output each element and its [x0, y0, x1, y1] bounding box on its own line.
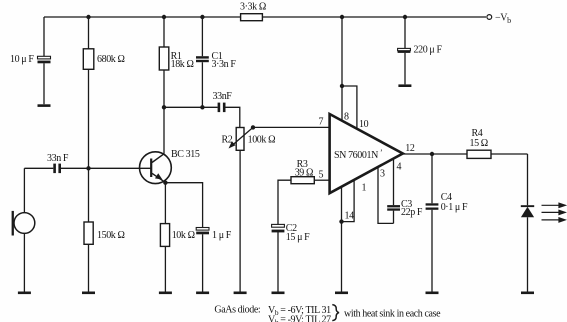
- svg-text:33nF: 33nF: [213, 91, 233, 102]
- ground (C2): [272, 292, 285, 295]
- resistor R2 100k body: [236, 128, 244, 151]
- svg-text:14: 14: [345, 211, 355, 222]
- wire mic/base node y=168: [24, 167, 150, 169]
- wire pin 4 through C3: [393, 158, 395, 223]
- transistor Q1 BC315: [140, 152, 172, 184]
- svg-text:39 Ω: 39 Ω: [295, 167, 313, 178]
- node dot rail/supply: [340, 15, 344, 19]
- svg-text:3: 3: [380, 169, 385, 180]
- resistor R4 15: [467, 150, 491, 158]
- capacitor 220uF plates: [398, 48, 411, 52]
- node dot base/680k: [86, 166, 90, 170]
- wire C4 branch: [431, 154, 433, 292]
- terminal -Vb circle: [487, 15, 492, 20]
- svg-text:SN 76001N ’: SN 76001N ’: [334, 148, 382, 161]
- svg-text:3·3k Ω: 3·3k Ω: [240, 2, 266, 13]
- wire pin 14 down: [341, 187, 343, 292]
- svg-text:22p F: 22p F: [401, 207, 423, 218]
- wire emitter to 10k: [164, 183, 166, 292]
- wire R1 branch: [163, 17, 165, 154]
- node dot collector/R1: [162, 105, 166, 109]
- node dot pins 8-10: [340, 84, 344, 88]
- svg-text:with heat sink in each case: with heat sink in each case: [344, 308, 441, 319]
- resistor R1 18k: [159, 47, 169, 70]
- svg-text:3·3n F: 3·3n F: [212, 59, 237, 70]
- capacitor 1uF plates: [196, 228, 209, 235]
- node dot collector/C1: [200, 105, 204, 109]
- ground (1uF): [196, 292, 209, 295]
- svg-text:7: 7: [319, 117, 324, 128]
- svg-text:33n F: 33n F: [47, 153, 69, 164]
- node dot pins 14-1: [339, 219, 343, 223]
- LED emission arrows: [542, 203, 566, 222]
- ground (150k): [82, 292, 95, 295]
- capacitor 10uF plates: [38, 56, 51, 63]
- wire pin 3 down: [378, 167, 394, 224]
- wire R2 lower to ground: [239, 150, 241, 291]
- ground (10k): [159, 292, 172, 295]
- wire supply to pins 8 and 10: [342, 17, 357, 130]
- resistor 10k: [160, 224, 169, 247]
- svg-text:12: 12: [405, 143, 415, 154]
- wire collector node y=107: [164, 107, 240, 127]
- svg-text:15 Ω: 15 Ω: [470, 138, 488, 149]
- wire R3 to C2: [278, 180, 291, 291]
- svg-text:Vb = -9V; TIL 27: Vb = -9V; TIL 27: [268, 315, 331, 322]
- LED GaAs diode: [521, 205, 534, 217]
- resistor R3 39: [291, 177, 314, 184]
- node dot output/C4: [430, 152, 434, 156]
- wire LED branch: [527, 154, 529, 292]
- wire emitter to 1uF: [165, 183, 202, 292]
- ground (mic): [18, 292, 31, 295]
- wire output pin 12: [403, 153, 528, 155]
- svg-text:10: 10: [359, 119, 369, 130]
- svg-text:1: 1: [362, 183, 367, 194]
- svg-text:100k Ω: 100k Ω: [248, 135, 276, 146]
- wire R2 wiper to pin 7: [253, 126, 330, 128]
- capacitor 33nF (mic) plates: [53, 164, 61, 174]
- svg-text:BC 315: BC 315: [171, 149, 200, 160]
- capacitor C4 0.1uF plates: [426, 203, 439, 210]
- wire mic vertical: [23, 168, 25, 291]
- svg-text:680k Ω: 680k Ω: [97, 54, 125, 65]
- svg-text:GaAs diode:: GaAs diode:: [214, 305, 260, 316]
- node dot rail/R1: [162, 15, 166, 19]
- capacitor C1 3.3nF plates: [196, 56, 209, 62]
- wire pin 5 to R3: [314, 179, 329, 181]
- microphone: [12, 211, 35, 236]
- svg-text:150k Ω: 150k Ω: [97, 230, 125, 241]
- svg-text:15 μ F: 15 μ F: [286, 232, 310, 243]
- resistor 680k: [83, 49, 94, 70]
- svg-text:R2: R2: [222, 135, 233, 146]
- wire C1 branch: [201, 17, 203, 107]
- ground (220uF): [398, 84, 411, 87]
- node dot rail/C1: [200, 15, 204, 19]
- svg-text:0·1 μ F: 0·1 μ F: [441, 202, 468, 213]
- svg-text:1 μ F: 1 μ F: [212, 230, 232, 241]
- potentiometer R2 wiper arrow: [229, 127, 254, 148]
- ground (LED): [521, 292, 534, 295]
- resistor 3.3k: [241, 14, 263, 21]
- svg-text:5: 5: [319, 170, 324, 181]
- svg-text:220 μ F: 220 μ F: [414, 45, 443, 56]
- node dot rail/680k: [86, 15, 90, 19]
- svg-text:−Vb: −Vb: [495, 13, 511, 26]
- svg-text:18k Ω: 18k Ω: [171, 59, 194, 70]
- wire 220uF branch: [404, 17, 406, 84]
- svg-text:4: 4: [397, 162, 402, 173]
- svg-text:10k Ω: 10k Ω: [172, 230, 195, 241]
- node dot emitter: [163, 181, 167, 185]
- svg-text:8: 8: [344, 112, 349, 123]
- ground (C4): [426, 292, 439, 295]
- capacitor C2 15uF plates: [272, 224, 285, 232]
- capacitor 33nF (top) plates: [218, 103, 226, 113]
- svg-text:10 μ F: 10 μ F: [10, 54, 34, 65]
- ground (10uF): [38, 104, 51, 107]
- node dot rail/220uF: [403, 15, 407, 19]
- wire 10uF branch: [43, 17, 45, 104]
- wire pin 1 down joining pin 14: [342, 180, 355, 222]
- resistor 150k: [84, 222, 93, 244]
- ground (pin 14): [335, 292, 348, 295]
- wire top supply rail: [44, 16, 486, 18]
- op-amp U1 SN76001N: [330, 114, 403, 193]
- ground (R2): [234, 292, 247, 295]
- wire 680k/150k branch: [88, 17, 90, 292]
- node dot wiper: [251, 125, 255, 129]
- capacitor C3 22pF plates: [387, 205, 400, 211]
